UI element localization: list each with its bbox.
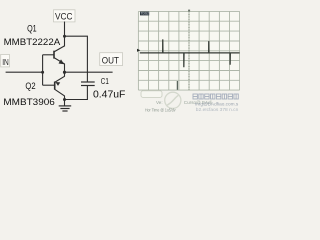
- node base junction: [41, 71, 44, 74]
- transistor Q1 MMBT2222A (NPN): [43, 46, 65, 72]
- ground: [59, 100, 71, 112]
- base bus wire: [42, 55, 44, 85]
- trace level marker arrow (left): [137, 49, 140, 52]
- trigger level tick (bottom): [176, 81, 178, 90]
- wire VCC junction to capacitor top: [65, 36, 88, 82]
- svg-text:IN: IN: [2, 57, 9, 67]
- svg-text:MMBT2222A: MMBT2222A: [4, 37, 61, 48]
- watermark circle logo: [165, 92, 181, 108]
- svg-text:Hor Time @ 1u5/dv: Hor Time @ 1u5/dv: [145, 107, 176, 112]
- wire OUT: [65, 71, 113, 73]
- scope logo label TDS: [140, 12, 149, 16]
- oscilloscope screen background: [138, 11, 239, 90]
- svg-text:b2.eIcfaos 378 n.cn: b2.eIcfaos 378 n.cn: [196, 107, 239, 112]
- svg-text:MMBT3906: MMBT3906: [3, 97, 54, 108]
- junction dot ground node: [63, 98, 66, 101]
- svg-text:0.47uF: 0.47uF: [93, 90, 125, 101]
- node OUT (net label box): [100, 53, 123, 67]
- scope readout button box: [141, 91, 162, 98]
- oscilloscope graticule grid: [138, 11, 239, 90]
- wire VCC to Q1 collector: [64, 22, 66, 47]
- scope trace waveform: [140, 52, 240, 54]
- node IN (net label box): [1, 54, 10, 67]
- node junction dot at VCC rail: [63, 35, 66, 38]
- svg-text:Q1: Q1: [27, 23, 37, 33]
- wire IN: [6, 71, 43, 73]
- svg-text:VCC: VCC: [55, 11, 73, 21]
- watermark CJK text row: [193, 94, 238, 99]
- capacitor C1: [81, 82, 95, 86]
- center graticule axis ticks (vertical): [188, 11, 190, 90]
- trigger position tick (top center): [188, 10, 190, 12]
- svg-text:TDS2: TDS2: [141, 12, 150, 16]
- svg-text:C1: C1: [101, 77, 109, 86]
- svg-text:Ve:: Ve:: [156, 100, 163, 105]
- transistor Q2 MMBT3906 (PNP): [43, 72, 65, 99]
- svg-text:Q2: Q2: [25, 81, 35, 91]
- wire capacitor bottom to ground bus: [65, 86, 88, 100]
- node VCC (net label box): [54, 10, 76, 22]
- node OUT junction dot: [63, 71, 66, 74]
- svg-text:OUT: OUT: [102, 55, 119, 66]
